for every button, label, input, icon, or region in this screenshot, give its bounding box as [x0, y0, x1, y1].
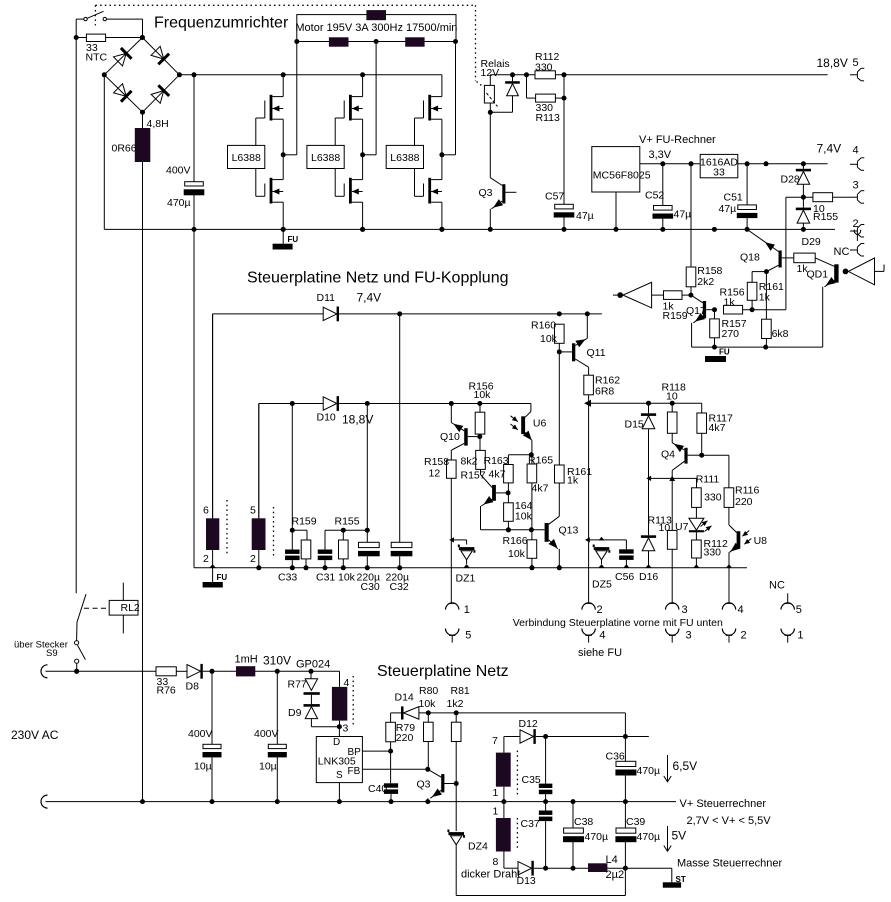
svg-text:1: 1 — [464, 604, 470, 616]
svg-text:D14: D14 — [395, 692, 414, 704]
svg-text:über Stecker: über Stecker — [14, 639, 68, 650]
svg-text:3: 3 — [853, 180, 859, 192]
svg-text:R155: R155 — [813, 211, 838, 223]
svg-text:Motor 195V 3A 300Hz 17500/min: Motor 195V 3A 300Hz 17500/min — [295, 22, 457, 34]
svg-text:S: S — [336, 770, 343, 781]
svg-text:5: 5 — [250, 504, 256, 516]
svg-text:U8: U8 — [754, 535, 768, 547]
svg-text:10µ: 10µ — [194, 760, 212, 772]
svg-text:3: 3 — [343, 723, 349, 735]
svg-text:D8: D8 — [186, 681, 200, 693]
svg-text:33: 33 — [713, 167, 725, 179]
svg-text:6R8: 6R8 — [595, 386, 614, 398]
svg-text:5: 5 — [465, 630, 471, 642]
svg-text:C30: C30 — [361, 581, 380, 593]
svg-text:4: 4 — [599, 630, 605, 642]
svg-text:V+ FU-Rechner: V+ FU-Rechner — [639, 134, 716, 146]
svg-text:C35: C35 — [522, 774, 541, 786]
svg-text:1k: 1k — [759, 292, 771, 304]
svg-text:10: 10 — [659, 522, 671, 534]
svg-text:Q4: Q4 — [661, 448, 675, 460]
svg-text:47µ: 47µ — [719, 203, 737, 215]
svg-text:C40: C40 — [368, 783, 387, 795]
svg-text:10k: 10k — [540, 333, 558, 345]
svg-text:220: 220 — [396, 732, 414, 744]
svg-text:C32: C32 — [390, 581, 409, 593]
svg-text:1: 1 — [493, 787, 499, 799]
svg-text:D10: D10 — [317, 412, 336, 424]
svg-text:10k: 10k — [508, 548, 526, 560]
svg-text:RL2: RL2 — [121, 602, 140, 614]
svg-text:C37: C37 — [521, 818, 540, 830]
svg-text:2: 2 — [741, 630, 747, 642]
svg-text:FB: FB — [348, 766, 361, 777]
svg-text:R160: R160 — [531, 319, 556, 331]
svg-text:DZ1: DZ1 — [456, 572, 476, 584]
svg-text:ST: ST — [676, 875, 686, 884]
svg-text:4: 4 — [853, 145, 859, 157]
svg-text:470µ: 470µ — [637, 831, 661, 843]
svg-text:18,8V: 18,8V — [817, 56, 848, 70]
svg-text:Steuerplatine Netz: Steuerplatine Netz — [377, 663, 509, 680]
svg-text:L4: L4 — [606, 854, 618, 866]
svg-text:330: 330 — [535, 62, 553, 74]
svg-text:D28: D28 — [781, 174, 800, 186]
svg-text:6k8: 6k8 — [772, 328, 789, 340]
svg-text:4: 4 — [344, 677, 350, 689]
svg-text:230V AC: 230V AC — [11, 728, 59, 742]
svg-text:3,3V: 3,3V — [649, 149, 672, 161]
svg-text:R113: R113 — [536, 112, 560, 124]
svg-text:8: 8 — [493, 856, 499, 868]
svg-text:12: 12 — [429, 468, 441, 480]
svg-text:D11: D11 — [317, 292, 336, 304]
svg-text:C33: C33 — [278, 572, 297, 584]
svg-text:C57: C57 — [545, 191, 564, 203]
svg-text:C51: C51 — [724, 192, 743, 204]
svg-text:D13: D13 — [517, 875, 536, 887]
svg-text:L6388: L6388 — [232, 152, 261, 164]
svg-text:1mH: 1mH — [235, 654, 258, 666]
svg-text:Frequenzumrichter: Frequenzumrichter — [154, 15, 289, 32]
svg-text:10k: 10k — [338, 572, 356, 584]
svg-text:3: 3 — [682, 604, 688, 616]
svg-text:QD1: QD1 — [807, 269, 829, 281]
svg-text:R155: R155 — [335, 515, 360, 527]
svg-text:C36: C36 — [606, 751, 625, 763]
svg-text:GP024: GP024 — [296, 659, 330, 671]
svg-text:R111: R111 — [696, 473, 720, 485]
svg-text:1k: 1k — [724, 296, 736, 308]
svg-text:Q13: Q13 — [559, 524, 579, 536]
svg-text:1k: 1k — [567, 474, 579, 486]
svg-text:siehe FU: siehe FU — [578, 647, 622, 659]
svg-text:R80: R80 — [419, 685, 438, 697]
svg-text:6: 6 — [203, 504, 209, 516]
svg-text:Verbindung Steuerplatine vorne: Verbindung Steuerplatine vorne mit FU un… — [513, 617, 723, 629]
svg-text:S9: S9 — [46, 648, 58, 659]
svg-text:270: 270 — [722, 328, 740, 340]
svg-text:10µ: 10µ — [259, 760, 277, 772]
svg-text:R77: R77 — [288, 678, 307, 690]
svg-text:NC: NC — [834, 246, 850, 258]
svg-text:4k7: 4k7 — [489, 468, 506, 480]
svg-text:Q18: Q18 — [740, 251, 760, 263]
svg-text:Q3: Q3 — [479, 187, 493, 199]
svg-text:FU: FU — [288, 235, 299, 244]
svg-text:U6: U6 — [533, 418, 547, 430]
svg-text:7,4V: 7,4V — [357, 291, 382, 305]
svg-text:C52: C52 — [645, 190, 664, 202]
svg-text:400V: 400V — [188, 728, 213, 740]
svg-text:R116: R116 — [735, 485, 759, 497]
svg-text:7: 7 — [492, 735, 498, 747]
svg-text:1: 1 — [493, 806, 499, 818]
svg-text:D15: D15 — [625, 418, 644, 430]
svg-text:Q10: Q10 — [440, 431, 460, 443]
svg-text:D16: D16 — [639, 571, 658, 583]
svg-text:DZ4: DZ4 — [468, 840, 488, 852]
svg-text:Q3: Q3 — [417, 779, 431, 791]
svg-text:R76: R76 — [157, 684, 176, 696]
svg-text:Q17: Q17 — [686, 305, 706, 317]
svg-text:47µ: 47µ — [674, 208, 692, 220]
svg-text:8k2: 8k2 — [461, 456, 478, 468]
svg-text:dicker Draht: dicker Draht — [461, 869, 520, 881]
svg-text:10: 10 — [666, 390, 678, 402]
svg-text:FU: FU — [719, 347, 730, 356]
svg-text:2,7V < V+ < 5,5V: 2,7V < V+ < 5,5V — [687, 815, 772, 827]
svg-text:330: 330 — [704, 492, 722, 504]
svg-text:220: 220 — [735, 496, 753, 508]
svg-text:5: 5 — [796, 604, 802, 616]
svg-text:2: 2 — [853, 218, 859, 230]
svg-text:C39: C39 — [626, 816, 645, 828]
svg-text:5V: 5V — [672, 828, 687, 842]
svg-text:2k2: 2k2 — [697, 276, 714, 288]
svg-text:4,8H: 4,8H — [147, 118, 169, 130]
svg-text:6,5V: 6,5V — [673, 759, 698, 773]
svg-text:C56: C56 — [615, 571, 634, 583]
svg-text:C31: C31 — [316, 572, 335, 584]
svg-text:L6388: L6388 — [311, 152, 340, 164]
svg-text:330: 330 — [704, 547, 722, 559]
svg-text:10k: 10k — [419, 698, 437, 710]
svg-text:R162: R162 — [595, 374, 620, 386]
svg-text:0R66: 0R66 — [112, 143, 137, 155]
svg-text:MC56F8025: MC56F8025 — [593, 170, 651, 182]
svg-text:10k: 10k — [515, 511, 533, 523]
svg-text:C38: C38 — [574, 816, 593, 828]
svg-text:L6388: L6388 — [390, 152, 419, 164]
svg-text:FU: FU — [217, 573, 228, 582]
svg-text:2µ2: 2µ2 — [606, 869, 625, 881]
svg-text:470µ: 470µ — [167, 197, 191, 209]
svg-text:R81: R81 — [451, 685, 470, 697]
svg-text:470µ: 470µ — [585, 831, 609, 843]
svg-text:Masse Steuerrechner: Masse Steuerrechner — [677, 857, 782, 869]
svg-text:D12: D12 — [519, 718, 538, 730]
svg-text:18,8V: 18,8V — [342, 412, 373, 426]
svg-text:NTC: NTC — [86, 52, 108, 64]
svg-text:R165: R165 — [528, 455, 553, 467]
svg-text:400V: 400V — [254, 728, 279, 740]
svg-text:DZ5: DZ5 — [592, 578, 612, 590]
svg-text:R159: R159 — [663, 310, 688, 322]
svg-text:1: 1 — [797, 630, 803, 642]
svg-text:47µ: 47µ — [576, 210, 594, 222]
svg-text:R166: R166 — [503, 535, 528, 547]
svg-text:4k7: 4k7 — [709, 422, 726, 434]
svg-text:10k: 10k — [474, 389, 492, 401]
svg-text:R159: R159 — [292, 516, 317, 528]
svg-text:2: 2 — [250, 553, 256, 565]
svg-text:470µ: 470µ — [637, 765, 661, 777]
svg-text:400V: 400V — [166, 165, 191, 177]
svg-text:2: 2 — [203, 553, 209, 565]
svg-text:310V: 310V — [263, 653, 291, 667]
svg-text:7,4V: 7,4V — [817, 142, 842, 156]
svg-text:NC: NC — [769, 579, 785, 591]
svg-text:4k7: 4k7 — [532, 483, 549, 495]
svg-text:D29: D29 — [802, 236, 821, 248]
svg-text:D: D — [333, 737, 340, 748]
svg-text:2: 2 — [597, 604, 603, 616]
svg-text:Q11: Q11 — [587, 347, 606, 359]
svg-text:D9: D9 — [288, 707, 302, 719]
svg-text:Steuerplatine Netz und FU-Kopp: Steuerplatine Netz und FU-Kopplung — [247, 270, 509, 287]
svg-text:R158: R158 — [424, 456, 449, 468]
svg-text:1k2: 1k2 — [447, 698, 464, 710]
svg-text:R163: R163 — [484, 455, 509, 467]
svg-text:3: 3 — [686, 630, 692, 642]
svg-text:5: 5 — [853, 57, 859, 69]
svg-text:4: 4 — [738, 604, 744, 616]
svg-text:V+ Steuerrechner: V+ Steuerrechner — [680, 798, 767, 810]
